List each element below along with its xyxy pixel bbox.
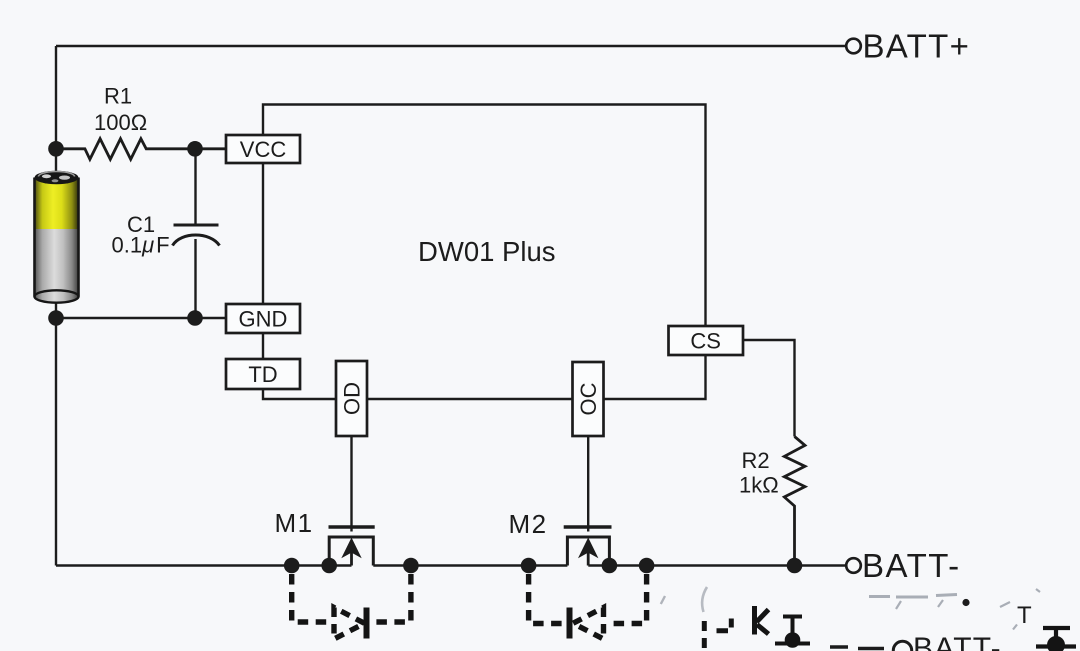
- node junction dot C1/GND: [187, 310, 203, 326]
- svg-text:BATT-: BATT-: [913, 632, 1002, 651]
- svg-text:R2: R2: [742, 448, 770, 473]
- node BATT- terminal: [846, 558, 861, 573]
- node junction M2 diode cathode: [521, 558, 537, 574]
- transistor M2: [564, 436, 612, 566]
- node junction M2 diode anode: [639, 558, 655, 574]
- svg-text:M2: M2: [509, 509, 548, 539]
- fragment: gray arc marks: [702, 587, 707, 612]
- node junction dot battery+: [48, 141, 64, 157]
- svg-text:R1: R1: [104, 84, 132, 109]
- fragment: small diode arrow: [755, 606, 769, 635]
- wire bottom rail right segment: [588, 564, 846, 566]
- resistor R2: [784, 437, 805, 566]
- node junction M1 diode anode: [284, 558, 300, 574]
- svg-text:1kΩ: 1kΩ: [739, 473, 779, 498]
- svg-text:T: T: [1017, 602, 1032, 629]
- battery BT1 cell: [35, 171, 79, 303]
- fragment: small tap with dot right: [1036, 628, 1076, 647]
- node junction M2 source: [602, 558, 618, 574]
- svg-text:BATT-: BATT-: [862, 547, 961, 584]
- fragment: gray smudge lines under BATT-: [869, 589, 1040, 630]
- svg-text:100Ω: 100Ω: [94, 110, 147, 135]
- node junction dot VCC/C1: [187, 141, 203, 157]
- pin OC: [573, 362, 604, 436]
- svg-text:OC: OC: [576, 382, 601, 415]
- node junction dot R2/BATT-: [787, 558, 803, 574]
- diode D1 body dashed loop M1: [292, 574, 411, 639]
- svg-text:OD: OD: [339, 382, 364, 415]
- fragment: small transistor tap with dot: [775, 617, 810, 644]
- svg-text:DW01 Plus: DW01 Plus: [418, 236, 556, 267]
- svg-text:VCC: VCC: [240, 137, 287, 162]
- pin OD: [336, 361, 367, 436]
- fragment: dashed corner: [717, 619, 732, 631]
- node junction M1 source: [321, 558, 337, 574]
- fragment: dashed wire (cut-off lower figure): [702, 621, 707, 651]
- resistor R1: [56, 139, 226, 160]
- transistor M1: [329, 436, 375, 566]
- svg-text:GND: GND: [239, 306, 288, 331]
- wire CS to R2: [743, 340, 795, 437]
- wire left rail: [55, 46, 57, 566]
- node junction dot battery- / GND: [48, 310, 64, 326]
- wire GND rail: [56, 317, 226, 319]
- IC U1 DW01 Plus outline: [263, 105, 706, 400]
- capacitor C1: [194, 149, 196, 225]
- pin CS: [669, 326, 744, 355]
- pin GND: [226, 304, 300, 333]
- wire bottom rail left segment: [56, 564, 352, 566]
- svg-text:BATT+: BATT+: [863, 28, 971, 65]
- node junction M1 diode cathode: [403, 558, 419, 574]
- svg-text:CS: CS: [690, 328, 721, 353]
- svg-text:M1: M1: [275, 508, 314, 538]
- diode D2 body dashed loop M2: [529, 574, 647, 639]
- pin VCC: [226, 135, 300, 163]
- wire top rail to BATT+: [56, 45, 846, 47]
- wire bottom rail middle segment: [373, 564, 567, 566]
- fragment: small BATT- terminal cut off: [830, 647, 884, 649]
- svg-text:TD: TD: [248, 362, 277, 387]
- node BATT+ terminal: [846, 39, 861, 54]
- fragment: black tick: [962, 599, 969, 606]
- pin TD: [226, 359, 300, 389]
- svg-text:0.1μF: 0.1μF: [112, 233, 170, 258]
